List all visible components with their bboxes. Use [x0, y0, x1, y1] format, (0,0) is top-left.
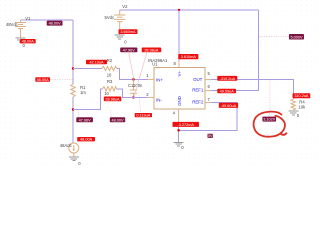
svg-text:48Vdc: 48Vdc — [6, 22, 18, 27]
annotation red circle around 3.102V — [254, 112, 287, 137]
svg-text:-310.2uA: -310.2uA — [220, 77, 236, 81]
svg-text:10k: 10k — [298, 105, 306, 110]
wire R2 to IN+ — [117, 69, 148, 80]
current source I1 — [60, 143, 79, 157]
pin 2 IN- stub — [146, 92, 162, 102]
svg-text:0.119uA: 0.119uA — [136, 114, 150, 118]
ground under V1 — [16, 38, 26, 48]
svg-text:28.98uA: 28.98uA — [144, 48, 159, 52]
svg-text:V2: V2 — [122, 4, 128, 9]
wire right vertical 5V drop to REF1 — [211, 10, 259, 91]
wire bottom rail to R3 — [73, 89, 103, 110]
svg-text:R2: R2 — [107, 58, 113, 63]
wire 5V top rail — [120, 9, 259, 11]
op-amp U1 INA296A1 box — [148, 58, 205, 109]
ground under R4 — [288, 111, 300, 118]
bias label 42.13uA (R2 current) — [86, 60, 107, 65]
wire V+ drop — [178, 10, 180, 61]
svg-text:IN+: IN+ — [156, 77, 163, 82]
bias label 48.00A (V1 current) — [20, 39, 36, 44]
resistor R2 — [102, 58, 117, 77]
node junction IN- / C1 bottom — [132, 96, 134, 98]
bias label 3.272mA (GND pin current) — [173, 122, 200, 127]
node label 48.00V (shunt top) — [110, 117, 125, 122]
node junction bottom rail — [72, 108, 74, 110]
bias label 0.119uA (C1 branch) — [135, 113, 152, 118]
svg-text:U1: U1 — [152, 62, 158, 67]
svg-text:R1: R1 — [80, 85, 86, 90]
leader 48.00V — [111, 110, 112, 117]
svg-text:42.13uA: 42.13uA — [89, 61, 104, 65]
svg-text:48.00A: 48.00A — [37, 78, 50, 82]
voltage source V1 — [15, 20, 26, 38]
node junction IN+ / C1 top — [132, 78, 134, 80]
leader from 48.00A to rail — [50, 79, 73, 81]
pin 1 IN+ stub — [146, 73, 163, 82]
wire R3 to IN- — [117, 89, 148, 98]
bias label 3.660mA (V2 current) — [119, 29, 138, 34]
ground under U1 GND — [174, 142, 185, 150]
bias label 49.59uA (REF1 current) — [217, 89, 236, 94]
svg-text:3.610mA: 3.610mA — [181, 55, 197, 59]
node label 48.00V on V1 wire — [47, 21, 63, 26]
resistor R1 shunt — [71, 84, 87, 97]
svg-text:48.00V: 48.00V — [49, 22, 62, 26]
leader 47.96V — [78, 110, 79, 117]
bias label -310.2uA (OUT current) — [217, 76, 237, 81]
svg-text:R3: R3 — [107, 79, 113, 84]
svg-text:49.59uA: 49.59uA — [220, 89, 235, 93]
bias label 48.00A (I1 current) — [77, 137, 95, 142]
svg-text:0V: 0V — [208, 134, 213, 138]
node junction top rail / V+ — [178, 9, 180, 11]
svg-text:47.96V: 47.96V — [123, 48, 136, 52]
svg-text:-49.60uA: -49.60uA — [221, 104, 237, 108]
svg-text:REF1: REF1 — [192, 87, 204, 92]
svg-text:3.660mA: 3.660mA — [120, 30, 136, 34]
svg-text:OUT: OUT — [193, 77, 203, 82]
svg-text:10: 10 — [107, 72, 112, 77]
leader 28.98uA to IN- — [134, 52, 147, 97]
svg-text:48Adc: 48Adc — [60, 143, 72, 148]
svg-text:IN-: IN- — [156, 98, 162, 103]
svg-text:1m: 1m — [80, 90, 86, 95]
svg-text:5.000V: 5.000V — [290, 35, 303, 39]
pin 5 OUT stub — [193, 71, 211, 82]
bias label 28.98uA (IN+ pin) — [142, 48, 162, 53]
bias label 3.610mA (V+ pin current) — [178, 54, 198, 59]
pin 7 REF2 stub — [192, 97, 211, 105]
svg-text:REF2: REF2 — [192, 100, 204, 105]
node label 47.96V (bottom rail) — [76, 117, 93, 122]
wire V1 top horizontal — [21, 19, 73, 21]
ground under I1 — [69, 157, 81, 166]
svg-text:3.102V: 3.102V — [263, 118, 276, 122]
bias label 310.2uA (R4 current) — [293, 93, 311, 98]
bias label 28.98uA (R3 current) — [104, 97, 122, 102]
svg-text:5Vdc: 5Vdc — [105, 15, 115, 20]
svg-text:C1100n: C1100n — [128, 83, 143, 88]
wire GND pin to ground — [178, 123, 180, 142]
svg-text:V1: V1 — [25, 16, 31, 21]
node label 5.000V (V+ rail) — [289, 34, 304, 40]
svg-text:48.00A: 48.00A — [80, 138, 93, 142]
svg-text:-3.272mA: -3.272mA — [177, 123, 194, 127]
wire REF2 return — [179, 103, 238, 131]
wire left vertical rail — [72, 20, 74, 84]
svg-text:INA296A1: INA296A1 — [148, 58, 168, 63]
svg-text:28.98uA: 28.98uA — [105, 97, 120, 101]
node label 0V (ground net) — [208, 134, 213, 139]
capacitor C1 — [128, 79, 143, 97]
svg-text:10: 10 — [104, 91, 109, 96]
node junction R2 tap — [72, 67, 74, 69]
leader 3.102V to OUT wire — [269, 80, 271, 116]
bias label -49.60uA (REF2 current) — [219, 103, 238, 108]
svg-text:48.00A: 48.00A — [22, 40, 35, 44]
node label 47.96V (IN+ node) — [120, 48, 137, 53]
node junction GND/REF2 — [178, 129, 180, 131]
voltage source V2 — [114, 10, 125, 35]
wire left vertical below R1 — [72, 97, 74, 143]
leader 5.000V to rail — [259, 36, 289, 38]
bias label 48.00A (R1 branch) — [35, 77, 50, 82]
leader from C1 node to 0.119uA — [140, 99, 141, 114]
svg-text:GND: GND — [177, 96, 182, 106]
svg-text:R4: R4 — [299, 99, 305, 104]
leader 47.96V to IN+ — [129, 52, 134, 78]
pin 4 GND stub — [173, 96, 182, 123]
wire OUT to R4 — [211, 80, 293, 99]
svg-text:V+: V+ — [177, 71, 182, 77]
svg-text:48.00V: 48.00V — [111, 118, 124, 122]
pin 6 REF1 stub — [192, 84, 211, 92]
svg-text:47.96V: 47.96V — [79, 118, 92, 122]
resistor R4 — [291, 99, 306, 110]
pin 8 V+ stub — [174, 61, 182, 77]
node label 3.102V (OUT voltage) — [262, 117, 276, 122]
wire R2 row — [73, 68, 102, 70]
ground under V2 — [115, 35, 128, 45]
resistor R3 — [103, 79, 117, 96]
svg-text:310.2uA: 310.2uA — [294, 94, 309, 98]
